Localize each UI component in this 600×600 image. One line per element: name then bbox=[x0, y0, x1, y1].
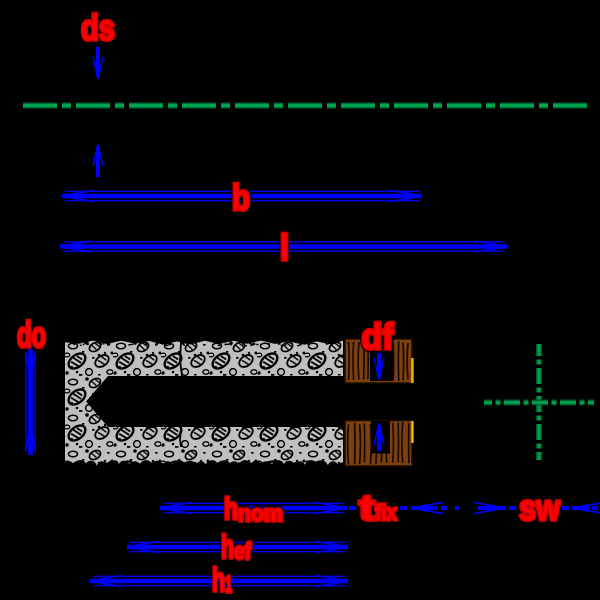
label ds bbox=[81, 7, 115, 48]
arrow ds upper bbox=[93, 47, 103, 79]
centerline cross horizontal bbox=[484, 400, 594, 406]
dimension sw right arrow bbox=[562, 502, 600, 513]
label hef bbox=[221, 528, 251, 565]
fixture plate upper (wood section) bbox=[345, 338, 412, 383]
arrow do upper bbox=[26, 353, 36, 375]
arrow do lower bbox=[26, 429, 36, 451]
dimension h1 bbox=[90, 575, 348, 586]
arrow df upper bbox=[374, 353, 384, 380]
svg-text:df: df bbox=[362, 316, 395, 357]
fixture plate lower (wood section) bbox=[345, 421, 412, 467]
arrow ds lower bbox=[93, 144, 103, 177]
label sw bbox=[519, 487, 561, 528]
label do bbox=[17, 314, 46, 355]
dimension hnom bbox=[160, 502, 347, 513]
svg-text:ds: ds bbox=[81, 7, 115, 48]
centerline cross vertical bbox=[536, 344, 542, 460]
dimension sw left arrow bbox=[473, 502, 516, 513]
svg-text:l: l bbox=[280, 227, 289, 268]
centerline axis (screw) bbox=[23, 103, 589, 109]
svg-text:b: b bbox=[232, 177, 250, 218]
label hnom bbox=[224, 491, 283, 526]
dimension l bbox=[60, 241, 507, 252]
label t_fix bbox=[359, 487, 398, 528]
label b bbox=[232, 177, 250, 218]
arrow df lower bbox=[374, 423, 384, 451]
label l bbox=[280, 227, 289, 268]
svg-text:sw: sw bbox=[519, 487, 561, 528]
dimension t_fix bbox=[349, 502, 459, 513]
dimension hef bbox=[127, 541, 348, 552]
dimension do line bbox=[26, 349, 35, 455]
label h1 bbox=[212, 561, 232, 598]
dimension b bbox=[62, 190, 422, 201]
label df bbox=[362, 316, 395, 357]
svg-text:do: do bbox=[17, 314, 46, 355]
concrete base material (section with drilled hole) bbox=[64, 340, 343, 473]
